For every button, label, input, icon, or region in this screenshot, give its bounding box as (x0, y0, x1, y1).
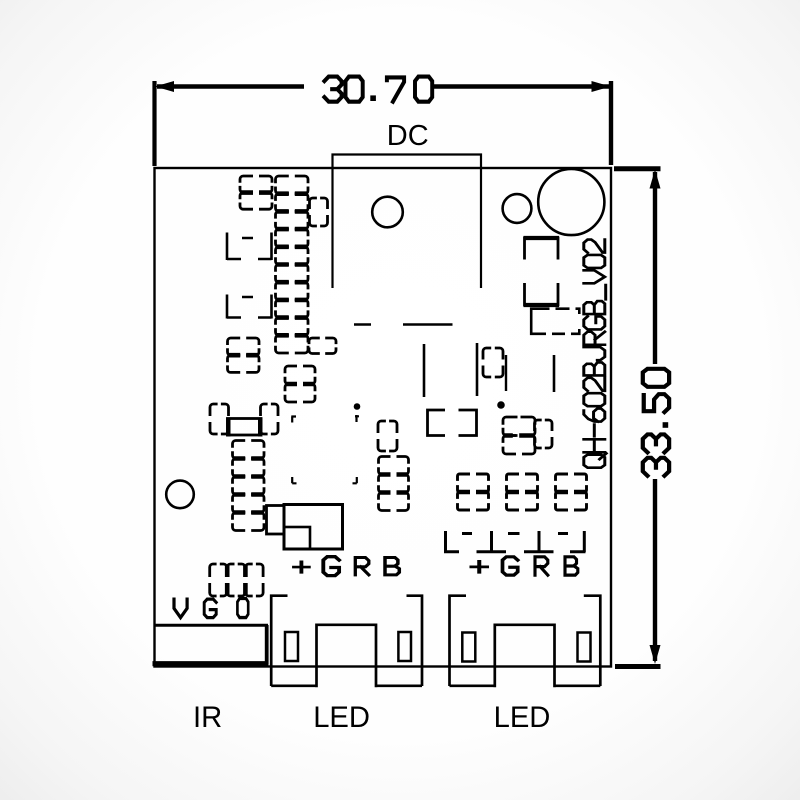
component U5 inner notch (284, 527, 310, 549)
dimension 33.50 arrowhead down (650, 645, 661, 664)
pad pair C1 (240, 176, 272, 193)
connector J2 footprint (444, 531, 586, 552)
RGB pad unit E2 (507, 474, 538, 492)
label + G R B right (472, 561, 488, 572)
pad side P1b (309, 338, 336, 354)
pad pair C2 (228, 338, 260, 355)
dimension 30.70 extension line right (609, 81, 613, 165)
RGB pad unit E3 (556, 474, 587, 492)
svg-text:LED: LED (313, 702, 370, 734)
hole left (166, 481, 194, 509)
component edge line V4 (553, 355, 556, 392)
svg-text:IR: IR (193, 702, 222, 734)
part number QH-602BJRGB_V02 (rotated) (584, 240, 607, 468)
component edge line V3 (505, 355, 507, 391)
pad cluster C4 (503, 417, 535, 436)
connector LED right outline (450, 596, 601, 688)
corner mark M1 (291, 417, 296, 423)
component edge line V1 (423, 344, 426, 397)
pad chain P2 (5 pads) (233, 441, 265, 459)
hole small top (503, 194, 532, 223)
pad pair C3 (285, 366, 315, 384)
connector DC outline (333, 155, 482, 289)
svg-text:DC: DC (387, 120, 429, 152)
pad side P1a (310, 198, 328, 226)
corner mark M3 (353, 477, 357, 483)
corner mark near TP1 (355, 415, 359, 422)
silk dash segment B (403, 323, 453, 326)
pad row P3 (3 pads) (210, 564, 227, 596)
dimension 33.50 line lower segment (653, 479, 657, 661)
pad P4 (483, 348, 503, 377)
label V G O (174, 599, 187, 617)
component brackets U4 (428, 410, 477, 436)
mounting hole big top-right (538, 169, 604, 235)
component edge line V2 (476, 343, 479, 396)
dimension 33.50 line upper segment (653, 172, 657, 364)
dimension 30.70 arrowhead right (592, 81, 611, 92)
component U5 body (284, 505, 343, 550)
dimension text 30.70 (324, 77, 341, 102)
dimension 30.70 line left segment (157, 84, 304, 89)
dimension 30.70 arrowhead left (155, 81, 174, 92)
connector LED left outline (271, 596, 422, 688)
connector LED right pin 1 (462, 633, 475, 662)
dimension 30.70 extension line left (152, 81, 156, 166)
capacitor C5 lower half (525, 283, 559, 305)
resistor R1 pads (210, 404, 229, 434)
resistor R1 body (228, 419, 262, 436)
svg-text:LED: LED (494, 702, 551, 734)
connector LED left pin 2 (398, 632, 411, 661)
board outline (155, 168, 612, 667)
component D1 outline (531, 309, 579, 334)
connector LED left pin 1 (285, 632, 298, 661)
capacitor C5 upper half (525, 238, 559, 260)
connector LED right pin 2 (578, 633, 591, 662)
pad P5 (378, 421, 397, 451)
silk dash segment A (354, 323, 371, 326)
dimension 30.70 line right segment (434, 84, 609, 89)
test point dot TP1 (354, 403, 361, 410)
IC outline U2 (227, 233, 272, 261)
dimension text 33.50 (rotated) (643, 369, 669, 387)
dimension 33.50 arrowhead up (650, 170, 661, 189)
label + G R B left (294, 562, 309, 572)
component U5 pad (267, 506, 285, 535)
hole in DC connector (372, 197, 403, 228)
RGB pad unit E1 (458, 474, 489, 492)
dimension 33.50 reference bar top (614, 166, 661, 171)
pad chain P6 (3 pads) (379, 457, 409, 475)
corner mark M2 (292, 477, 296, 483)
test point dot TP2 (497, 401, 505, 409)
IR receiver module outline (155, 624, 269, 627)
IC outline U3 (227, 295, 272, 319)
dimension 33.50 reference bar bottom (615, 664, 661, 669)
pad chain P1 (10 pads) (276, 176, 309, 194)
